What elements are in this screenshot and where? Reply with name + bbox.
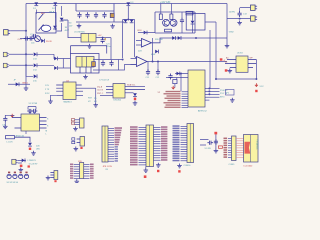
svg-text:LCD1602: LCD1602 xyxy=(244,165,254,167)
svg-text:AT89C52: AT89C52 xyxy=(198,110,207,113)
header JP2 xyxy=(80,137,85,147)
connector J1 xyxy=(4,30,11,35)
wire diode link xyxy=(26,54,54,76)
ground C13 xyxy=(237,21,242,25)
connector J2 xyxy=(3,52,8,56)
wire out drop xyxy=(110,38,112,60)
label caps xyxy=(99,80,110,82)
diode D6 xyxy=(53,26,57,29)
power dot JP2 xyxy=(80,147,82,149)
crystal X1 xyxy=(27,107,37,114)
capacitor C14 xyxy=(101,60,105,66)
wire J3 xyxy=(9,64,33,66)
svg-text:JP8 CON: JP8 CON xyxy=(103,166,113,168)
diode D22 xyxy=(177,72,180,76)
diode D15 xyxy=(33,74,38,82)
power flag VCC5 xyxy=(255,83,258,86)
wire lcd red links xyxy=(236,139,244,158)
chip U4 pins left xyxy=(56,85,63,95)
chip U4 pins right xyxy=(76,85,96,95)
chip U3 pins right xyxy=(40,118,47,129)
wire to plug P1 xyxy=(240,7,251,9)
diode D3 xyxy=(126,2,134,6)
ground U8 right xyxy=(230,98,235,102)
svg-text:X1 32768: X1 32768 xyxy=(29,103,38,105)
svg-text:+12V 12D: +12V 12D xyxy=(160,2,171,4)
capacitor C3 xyxy=(30,34,37,38)
wire mid drop xyxy=(195,37,197,39)
power flag D20 xyxy=(29,148,31,150)
relay K2 body xyxy=(76,57,94,68)
label P00 xyxy=(94,98,98,103)
chip U5 xyxy=(236,56,248,72)
capacitor C20 xyxy=(214,139,218,145)
wire U5 net xyxy=(215,60,257,81)
chip U3 pins left xyxy=(12,117,21,128)
svg-text:1 IN: 1 IN xyxy=(45,85,49,87)
chip U8 left pins xyxy=(164,91,189,108)
label OUT xyxy=(18,39,23,41)
svg-text:YM1602C: YM1602C xyxy=(256,139,259,150)
wire jump row xyxy=(8,83,30,85)
wire left bus xyxy=(25,4,27,87)
ground cap row xyxy=(77,24,82,28)
wire J1 lower lead xyxy=(20,38,35,40)
display DS1 xyxy=(244,135,259,163)
label U4 bottom xyxy=(64,100,73,103)
inductor L1 xyxy=(6,136,15,144)
capacitor C4 xyxy=(77,12,81,18)
relay switch b xyxy=(39,25,44,31)
power flag lcd xyxy=(214,132,217,135)
diode D5 xyxy=(41,39,44,43)
wire L1 xyxy=(15,137,31,142)
diode D19 xyxy=(133,93,137,96)
power flag U7 xyxy=(134,98,136,101)
header J7 pins xyxy=(173,125,188,161)
wire mid rail join xyxy=(119,60,137,71)
capacitor C13 xyxy=(238,8,248,17)
capacitor C5 xyxy=(85,12,89,18)
power flag U3 xyxy=(11,114,14,117)
label red D5 xyxy=(46,41,52,43)
diode D26 xyxy=(130,20,134,23)
header JP2 pins xyxy=(77,139,80,143)
label red jump xyxy=(22,83,29,85)
wire y1 stubs xyxy=(175,74,181,92)
ground U5 xyxy=(228,69,233,73)
relay K1 outline xyxy=(36,13,56,34)
resistor R13 xyxy=(165,29,172,32)
net label VIN2 xyxy=(229,32,235,34)
net label U7 right xyxy=(127,84,136,87)
label J5 xyxy=(103,166,113,168)
svg-text:LED: LED xyxy=(36,148,40,150)
wire D3 drop xyxy=(127,6,129,19)
ground JP3 xyxy=(46,176,51,180)
ground JP1 xyxy=(73,127,78,131)
power flag U8b xyxy=(225,69,228,71)
power label +12V xyxy=(160,2,171,4)
ground U1 xyxy=(87,44,92,48)
label U8 bottom xyxy=(198,110,207,113)
svg-text:12VIN: 12VIN xyxy=(229,12,235,14)
connector J4 xyxy=(12,159,18,164)
diode D24 xyxy=(151,50,159,56)
label 104 xyxy=(31,43,35,45)
connector J3 xyxy=(3,63,8,67)
label U4 xyxy=(66,80,70,82)
label TXRX xyxy=(71,119,74,125)
capacitor C10 xyxy=(180,18,184,24)
power dot J7 xyxy=(178,170,180,172)
wire U2B inputs xyxy=(131,59,137,65)
capacitor C15 xyxy=(109,60,113,66)
wire U1 out xyxy=(96,37,111,39)
wire lcd stubs xyxy=(200,140,209,146)
capacitor C2 xyxy=(28,36,34,40)
svg-text:R20 10K: R20 10K xyxy=(155,39,163,41)
label U5 top xyxy=(237,53,244,55)
diode D7 xyxy=(60,18,64,21)
wire relay interconnect xyxy=(56,6,62,31)
wire U3 stub xyxy=(25,131,27,134)
label J5 sub xyxy=(106,169,109,171)
transistor Q3 xyxy=(170,19,177,26)
capacitor C1 xyxy=(24,36,30,40)
power dot J6r xyxy=(157,170,159,172)
resistor R11 xyxy=(159,14,162,20)
pin text U3 right xyxy=(47,118,49,127)
power flag Y1 xyxy=(172,86,175,89)
diode D2 xyxy=(52,2,57,9)
wire U1 in xyxy=(62,20,82,38)
chip U5 pins left xyxy=(225,60,236,68)
label U7 bottom xyxy=(114,100,122,102)
ground JP6 xyxy=(75,179,80,183)
svg-text:+5V: +5V xyxy=(98,35,102,37)
svg-text:VO RS: VO RS xyxy=(205,148,212,150)
svg-text:GND1: GND1 xyxy=(22,83,29,85)
capacitor C12 xyxy=(156,61,161,79)
header JP1 xyxy=(80,118,85,128)
label U3 bottom xyxy=(16,135,25,138)
transistor Q1 xyxy=(35,36,41,42)
svg-text:DS1302: DS1302 xyxy=(114,100,122,102)
svg-text:VIN2: VIN2 xyxy=(229,32,235,34)
label J7 bottom xyxy=(184,165,192,167)
button labels xyxy=(7,182,19,184)
diode D25 xyxy=(124,20,128,23)
junction xyxy=(195,37,197,39)
label J8 bottom xyxy=(229,164,236,166)
ground left bus xyxy=(24,86,29,90)
header JP1 pins xyxy=(75,120,80,125)
header J5 xyxy=(102,126,108,162)
display DS1 red zone xyxy=(245,142,251,154)
chip U5 pins right xyxy=(248,60,256,68)
wire amp frame xyxy=(155,12,195,33)
chip U7 xyxy=(113,84,125,99)
svg-text:CON9: CON9 xyxy=(229,164,236,166)
header JP3 xyxy=(54,171,58,180)
regulator U1 xyxy=(81,33,96,42)
capacitor CE1 electrolytic xyxy=(110,13,114,17)
ground relay xyxy=(83,75,88,79)
label D23 xyxy=(138,51,143,53)
wire mid rail upper xyxy=(93,59,124,61)
header J6 xyxy=(146,125,154,167)
ground U4 right xyxy=(93,103,98,107)
relay coil xyxy=(41,25,51,31)
label JP6 xyxy=(78,161,83,163)
capacitor C16 xyxy=(2,116,7,126)
power dot J6 xyxy=(144,175,147,178)
ground C16 xyxy=(3,124,8,128)
wire into amp xyxy=(138,32,155,34)
label U1 7805 xyxy=(74,32,86,34)
header J8 xyxy=(232,136,237,161)
display DS1 label xyxy=(256,139,259,150)
wire U2B output xyxy=(147,61,227,63)
svg-text:S1 S2 S3 S4: S1 S2 S3 S4 xyxy=(7,182,19,183)
net labels right xyxy=(88,98,93,103)
label lcd nets xyxy=(205,148,212,150)
connector P1 xyxy=(251,5,258,10)
header J5 pins xyxy=(108,127,122,161)
svg-text:L7805CV: L7805CV xyxy=(28,160,37,162)
wire detector loop xyxy=(123,19,137,59)
wire C16 xyxy=(5,115,14,124)
ground U7 xyxy=(133,101,138,105)
wire U2A inputs xyxy=(136,41,142,46)
ground right bus xyxy=(225,44,230,48)
header JP3 pins xyxy=(50,173,54,178)
label J4a xyxy=(28,160,37,162)
connector P2 xyxy=(251,16,258,21)
diode D21 xyxy=(22,159,25,163)
ground mid xyxy=(110,24,115,28)
wire U6 out xyxy=(205,22,216,89)
capacitor C6 xyxy=(94,12,98,18)
wire lcd vbus xyxy=(215,134,217,148)
header J6 pins xyxy=(130,126,167,165)
diode D16 xyxy=(16,82,19,86)
wire mid rail lower xyxy=(93,69,119,71)
label C21 xyxy=(106,43,111,48)
wire +12V top rail xyxy=(26,3,227,5)
op-amp U2A xyxy=(142,39,152,48)
pin text U5 left xyxy=(225,57,229,64)
label amp xyxy=(155,39,163,41)
capacitor C18 xyxy=(168,74,172,80)
ground lcd xyxy=(214,149,219,153)
label D7 xyxy=(65,20,70,32)
ground J4 xyxy=(19,168,24,172)
diode D17 xyxy=(54,57,57,61)
svg-text:3 RX: 3 RX xyxy=(45,93,50,95)
header JP6 pins xyxy=(70,164,94,179)
header JP6 xyxy=(80,163,84,179)
relay switch a xyxy=(36,10,43,20)
wire fb drop xyxy=(152,38,154,63)
capacitor C11 xyxy=(146,62,151,79)
svg-text:D5 IN: D5 IN xyxy=(46,41,52,43)
pin text U7 left xyxy=(97,85,104,95)
label RL1 xyxy=(41,11,55,16)
capacitor CE2 electrolytic xyxy=(92,62,96,67)
svg-text:VCC: VCC xyxy=(260,86,265,88)
wire X1 to U3 xyxy=(30,112,35,114)
pin text U5 right xyxy=(250,58,254,60)
capacitor C19 xyxy=(207,141,213,145)
svg-text:L1 470: L1 470 xyxy=(7,141,14,143)
wire U2A out xyxy=(152,38,228,43)
label X2 xyxy=(158,92,161,94)
header J7 xyxy=(187,124,194,163)
relay K2 pins xyxy=(80,67,91,73)
wire J2 xyxy=(9,53,33,55)
label jump xyxy=(14,80,17,82)
label +5V xyxy=(98,35,102,37)
label R18 xyxy=(138,30,143,32)
op-amp U2B xyxy=(137,57,148,67)
power flag J4 xyxy=(20,165,30,168)
buttons S1-S4 xyxy=(7,172,29,179)
power dot VCC5 xyxy=(255,90,257,92)
wire to plug P2 xyxy=(227,18,251,20)
svg-text:C7 104 C8: C7 104 C8 xyxy=(99,80,110,82)
net label VCC5 xyxy=(260,86,265,88)
svg-text:CLK B: CLK B xyxy=(97,89,104,91)
diode D11 xyxy=(172,36,175,40)
chip U7 pins right xyxy=(125,86,145,93)
ground J7 xyxy=(177,164,182,168)
label DS1 bottom xyxy=(244,165,254,167)
svg-text:DQ A: DQ A xyxy=(97,85,103,88)
net label ML xyxy=(46,131,48,136)
svg-text:SDA SCL: SDA SCL xyxy=(127,84,136,87)
ground U4 left xyxy=(48,95,56,103)
chip U8 right pins xyxy=(205,88,220,101)
chip U4 xyxy=(63,82,76,100)
wire U4 right drop xyxy=(95,88,97,103)
comparator box U6 xyxy=(186,11,205,30)
diode D12 xyxy=(178,36,181,40)
wire mcu top pins xyxy=(166,73,188,78)
diode D14 xyxy=(33,63,38,71)
wire cap rail drops xyxy=(76,4,114,23)
chip U3 xyxy=(21,114,40,131)
svg-text:MAX813: MAX813 xyxy=(64,100,73,103)
transistor Q2 xyxy=(163,19,170,26)
ground J6 right xyxy=(156,163,161,167)
wire cap rail upper xyxy=(76,10,114,12)
crystal Y1 xyxy=(173,80,177,84)
wire J4 xyxy=(18,160,26,163)
svg-text:OUT: OUT xyxy=(18,39,23,41)
diode D1 xyxy=(33,2,38,9)
resistor R12 xyxy=(170,14,173,20)
svg-text:U5 E2: U5 E2 xyxy=(237,53,244,55)
svg-text:2 TX: 2 TX xyxy=(45,89,50,91)
ground J6 xyxy=(144,167,149,173)
chip U7 pins left xyxy=(100,86,113,95)
power dot JP3 xyxy=(54,180,56,182)
wire amp inner xyxy=(182,12,193,33)
wire amp rail drops xyxy=(161,4,172,15)
svg-text:RST C: RST C xyxy=(97,93,104,95)
label D20 xyxy=(36,146,41,151)
svg-text:CON16: CON16 xyxy=(184,165,192,167)
svg-text:DC-IN 9V: DC-IN 9V xyxy=(29,164,38,166)
relay K2 outline xyxy=(71,54,100,74)
diode D9 xyxy=(191,21,195,24)
header J8 pins xyxy=(224,138,232,158)
capacitor C17 xyxy=(72,138,75,144)
diode D13 xyxy=(33,52,38,60)
resistor R21 xyxy=(218,146,222,148)
wire relay top frame xyxy=(71,46,107,54)
diode D10 xyxy=(144,31,147,35)
net label 12VIN xyxy=(229,12,235,14)
svg-text:G5LA: G5LA xyxy=(49,11,55,14)
capacitor C7 xyxy=(102,12,106,18)
power flag U8a xyxy=(220,58,226,62)
pin labels U4 left xyxy=(45,85,50,95)
label X1 cluster xyxy=(29,103,38,105)
wire J1 to bus xyxy=(10,30,27,32)
ground JP2 xyxy=(74,147,79,151)
label P1 box xyxy=(226,90,235,96)
wire relay feeds xyxy=(54,54,71,68)
diode D18 xyxy=(54,66,57,70)
wire right bus xyxy=(226,4,228,44)
label J4b xyxy=(29,164,38,166)
wire cap rail lower xyxy=(76,21,124,23)
chip U8 xyxy=(188,70,205,107)
ground D20 xyxy=(31,151,36,155)
svg-text:4148: 4148 xyxy=(151,54,155,56)
diode D20 xyxy=(28,143,32,146)
wire relay drop xyxy=(55,6,57,18)
capacitor C9 xyxy=(101,38,106,44)
net labels U8 right xyxy=(220,90,228,98)
